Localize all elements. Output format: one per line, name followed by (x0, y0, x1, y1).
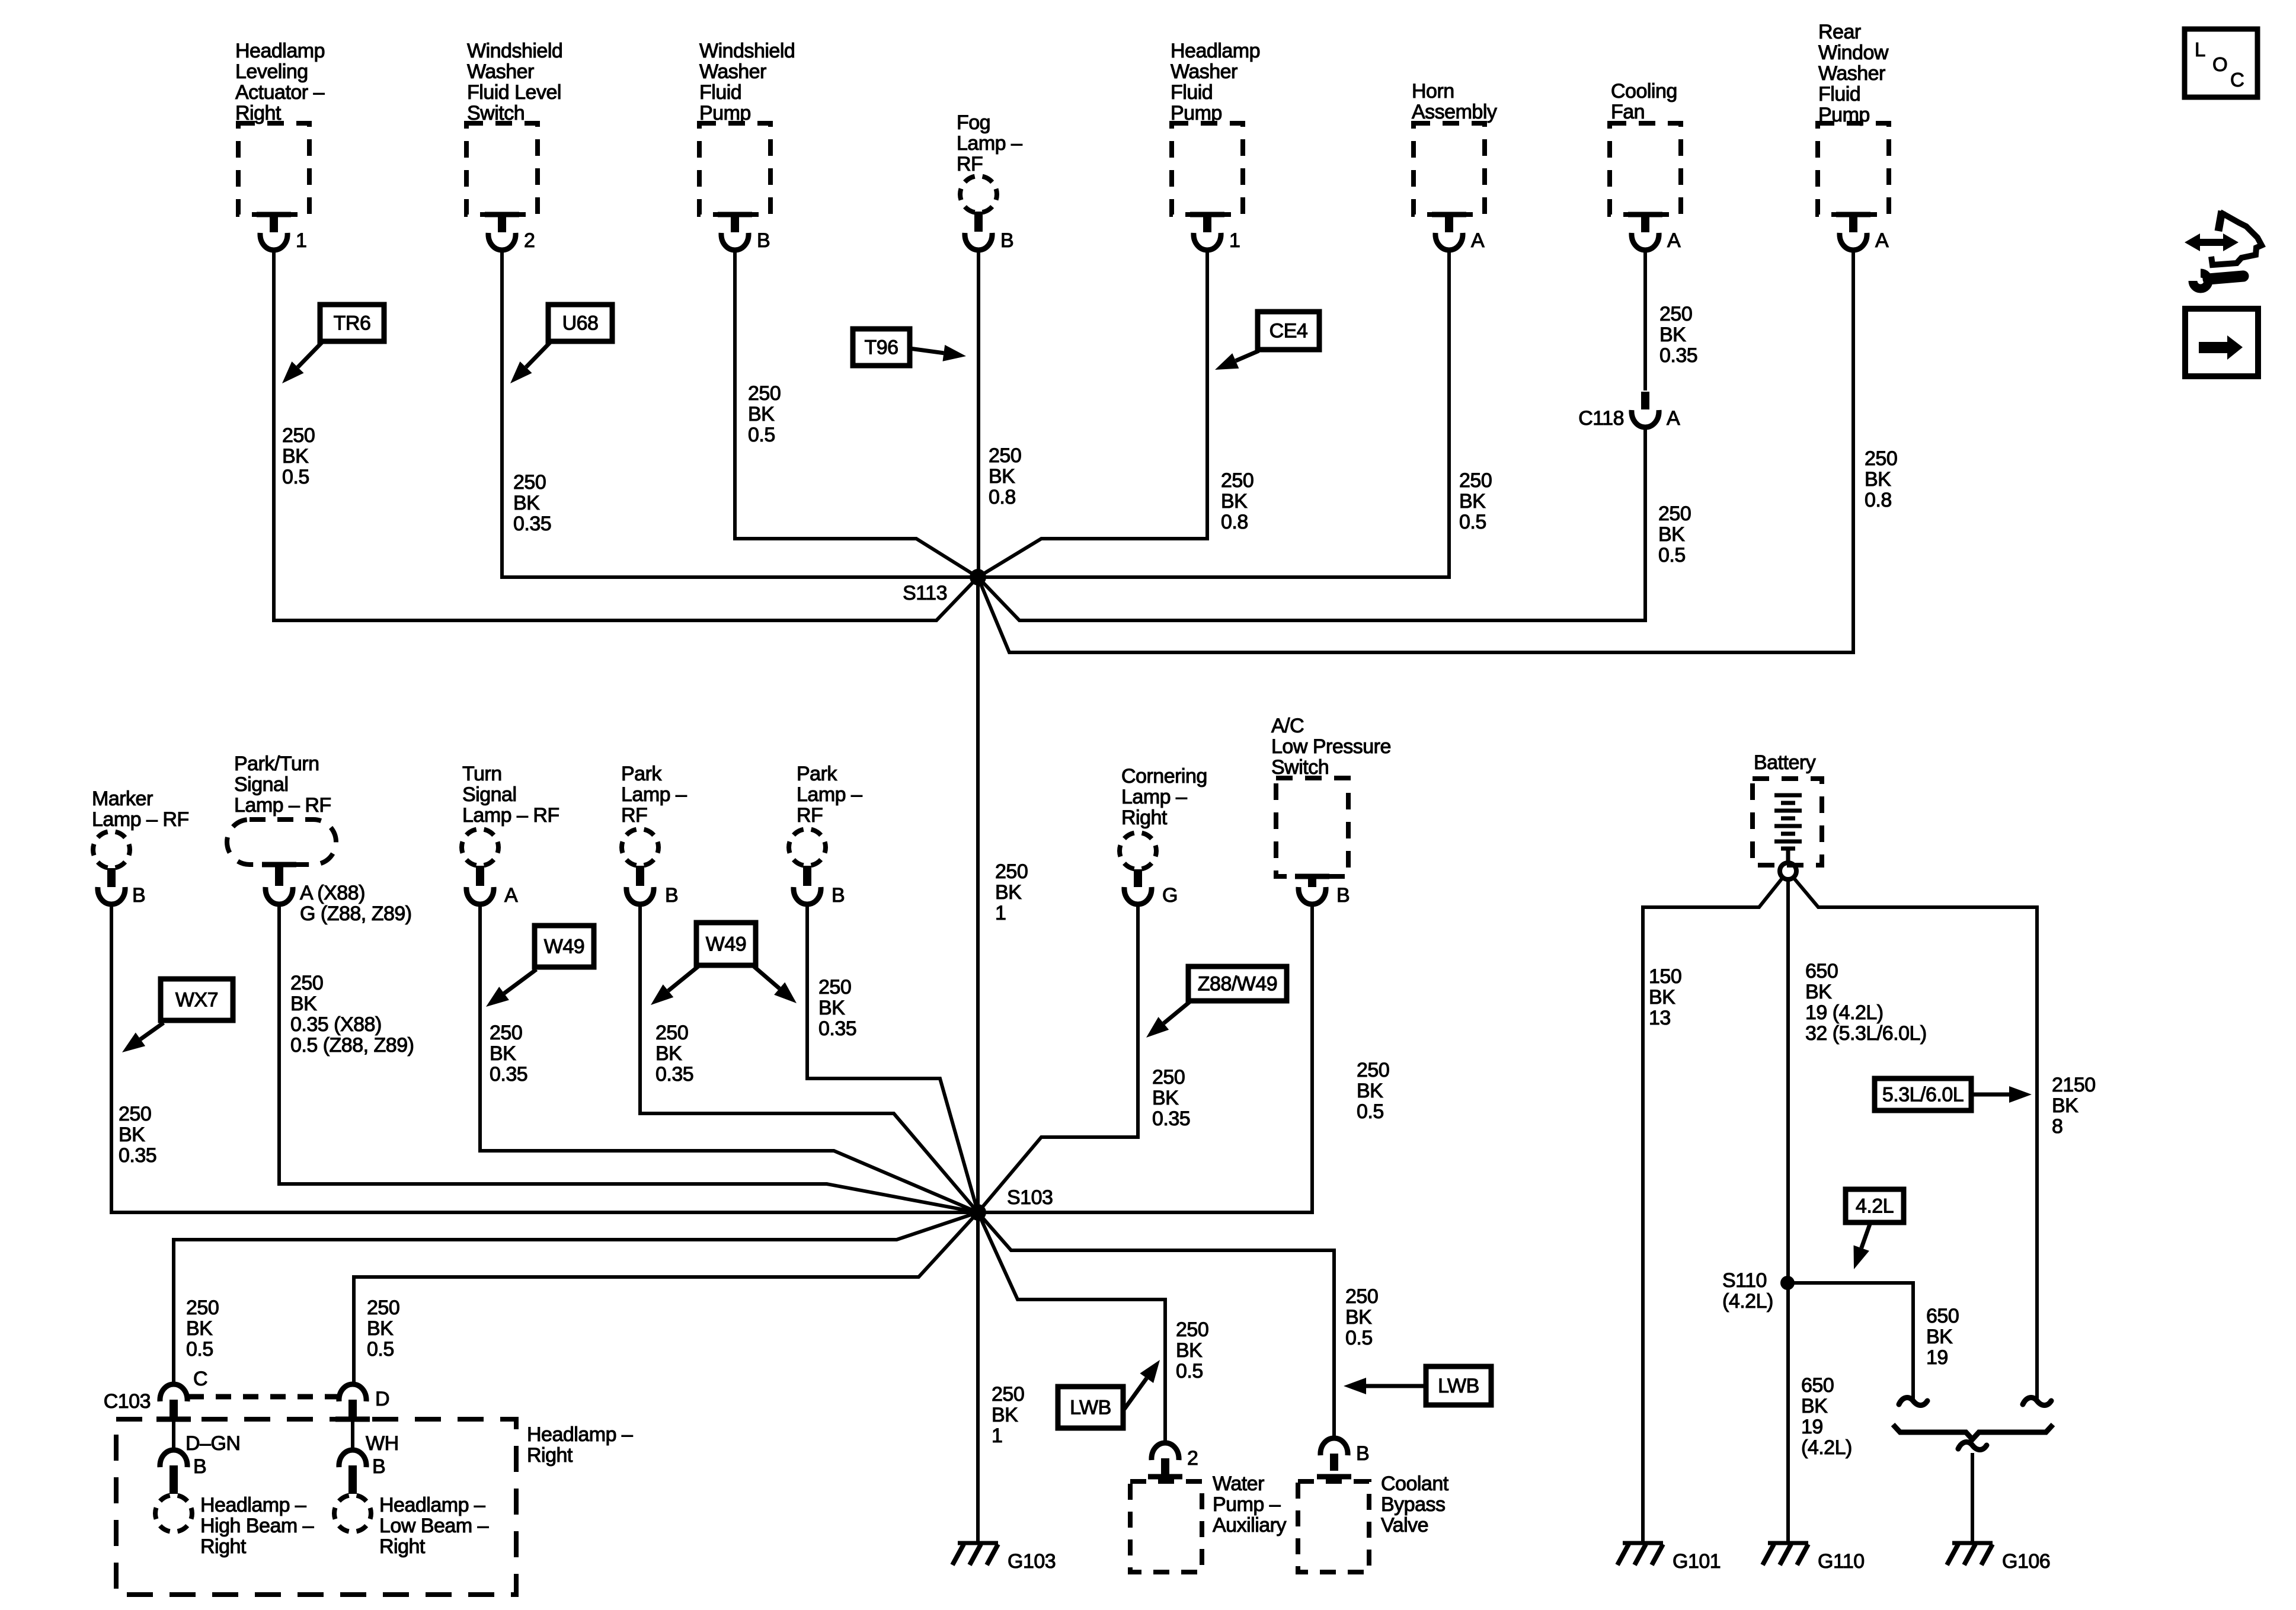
pin 2 of Windshield Washer Fluid Level Switch (524, 229, 535, 252)
svg-text:BK: BK (1865, 468, 1891, 491)
label S103 (1007, 1186, 1053, 1209)
label box LWB (water pump) (1058, 1387, 1123, 1428)
label: 250 BK 0.5 (headlamp low beam wire) (367, 1297, 399, 1361)
svg-text:0.35: 0.35 (1659, 344, 1697, 367)
svg-text:0.35 (X88): 0.35 (X88) (290, 1013, 382, 1036)
wire: park lamp left to S103 (640, 903, 978, 1212)
svg-text:Headlamp –: Headlamp – (527, 1423, 633, 1446)
svg-text:BK: BK (748, 403, 775, 425)
svg-text:0.5: 0.5 (748, 424, 775, 446)
svg-text:1: 1 (995, 902, 1006, 924)
svg-text:O: O (2212, 53, 2227, 75)
legend arrow box (2185, 309, 2258, 376)
connector 2 of water pump (1152, 1443, 1179, 1475)
svg-text:C118: C118 (1578, 407, 1624, 430)
pin 1 of Headlamp Washer Fluid Pump (1229, 229, 1240, 252)
label: 250 BK 0.8 (rear window washer pump wire) (1865, 447, 1897, 511)
svg-text:G110: G110 (1818, 1550, 1865, 1573)
svg-text:250: 250 (290, 972, 323, 994)
component: Cornering Lamp - Right (1120, 765, 1207, 904)
pigtail end (2150 wire) (2023, 1397, 2051, 1405)
label: 250 BK 0.5 (coolant bypass wire) (1345, 1285, 1378, 1349)
label: 250 BK 1 (trunk lower) (992, 1383, 1024, 1447)
svg-text:BK: BK (818, 997, 845, 1019)
wire: battery to G110 (1786, 879, 1790, 1543)
svg-text:Right: Right (200, 1535, 247, 1558)
svg-text:BK: BK (1801, 1395, 1828, 1417)
pin A of Turn Signal Lamp (504, 884, 518, 907)
component: Battery (1753, 751, 1822, 865)
component: Windshield Washer Fluid Pump (699, 40, 795, 250)
arrow from WX7 to marker wire (122, 1023, 164, 1052)
svg-text:250: 250 (1221, 469, 1253, 492)
arrow from W49 right to park lamp left wire (651, 966, 698, 1005)
svg-text:Window: Window (1818, 41, 1889, 64)
label G101 (1673, 1550, 1721, 1573)
svg-text:C: C (2230, 69, 2244, 91)
svg-text:LWB: LWB (1438, 1375, 1479, 1397)
svg-text:Lamp –: Lamp – (797, 783, 862, 806)
svg-text:BK: BK (1152, 1087, 1179, 1109)
svg-text:Park/Turn: Park/Turn (234, 753, 319, 775)
component: Park Lamp - RF (right) (789, 763, 862, 904)
splice S113 (970, 569, 986, 585)
svg-text:Park: Park (797, 763, 837, 785)
arrow from TR6 to wire (282, 343, 322, 383)
label C103 (104, 1390, 151, 1413)
svg-text:BK: BK (1221, 490, 1248, 513)
label: 250 BK 0.8 (headlamp washer pump wire) (1221, 469, 1253, 533)
svg-text:BK: BK (186, 1317, 213, 1340)
svg-text:BK: BK (1345, 1306, 1372, 1329)
label: Headlamp Low Beam Right (379, 1494, 489, 1558)
label G110 (1818, 1550, 1865, 1573)
svg-text:BK: BK (1805, 981, 1832, 1003)
connector C103 row (dashed link) (188, 1394, 339, 1400)
label: Headlamp High Beam Right (200, 1494, 314, 1558)
label: 250 BK 0.35 (cornering lamp wire) (1152, 1066, 1190, 1130)
label: 250 BK 0.8 (fog lamp wire) (989, 444, 1021, 508)
svg-text:Headlamp: Headlamp (235, 40, 325, 62)
label box W49 (right) (696, 923, 756, 965)
pigtail end (S110 branch) (1899, 1397, 1927, 1405)
pin B of Park Lamp (right) (832, 884, 845, 907)
svg-text:C103: C103 (104, 1390, 151, 1413)
svg-text:0.8: 0.8 (989, 486, 1016, 508)
label box 4.2L (1846, 1189, 1904, 1222)
label: 150 BK 13 (1649, 965, 1681, 1029)
svg-text:250: 250 (748, 382, 781, 405)
svg-text:Bypass: Bypass (1381, 1493, 1446, 1516)
wire: park lamp right to S103 (807, 903, 978, 1212)
svg-text:BK: BK (995, 881, 1022, 904)
svg-text:WH: WH (366, 1432, 399, 1455)
arrow from CE4 to wire (1215, 351, 1259, 370)
svg-text:0.5: 0.5 (1658, 544, 1686, 566)
wire: cornering lamp to S103 (978, 903, 1138, 1212)
wire: horn assembly to S113 (978, 249, 1449, 577)
wire: S110 branch to pigtail (1787, 1283, 1913, 1402)
svg-text:250: 250 (655, 1022, 688, 1044)
svg-text:CE4: CE4 (1269, 320, 1308, 343)
svg-text:Lamp –: Lamp – (957, 132, 1022, 155)
component: Park/Turn Signal Lamp - RF (227, 753, 336, 904)
svg-text:0.35: 0.35 (1152, 1108, 1190, 1130)
svg-text:Water: Water (1213, 1473, 1264, 1495)
component box: Coolant Bypass Valve (1298, 1477, 1369, 1572)
svg-text:BK: BK (1658, 523, 1685, 546)
svg-text:BK: BK (1357, 1080, 1383, 1102)
svg-text:BK: BK (655, 1042, 682, 1065)
svg-text:19: 19 (1801, 1416, 1823, 1438)
label C118 (1578, 407, 1624, 430)
svg-text:0.5: 0.5 (1345, 1327, 1373, 1349)
component: A/C Low Pressure Switch (1271, 715, 1391, 904)
svg-text:250: 250 (1152, 1066, 1185, 1089)
svg-text:Right: Right (527, 1444, 573, 1467)
svg-text:A: A (1875, 229, 1889, 252)
svg-text:5.3L/6.0L: 5.3L/6.0L (1882, 1084, 1964, 1106)
label box 5.3L/6.0L (1875, 1078, 1971, 1110)
svg-text:L: L (2195, 39, 2205, 60)
svg-text:B: B (1356, 1442, 1369, 1465)
svg-text:Headlamp –: Headlamp – (379, 1494, 485, 1516)
legend vehicle outline icon (2211, 211, 2262, 265)
svg-text:(4.2L): (4.2L) (1722, 1290, 1773, 1313)
svg-text:Washer: Washer (1171, 60, 1237, 83)
arrow from LWB to water pump wire (1124, 1360, 1160, 1409)
pin B of A/C Low Pressure Switch (1336, 884, 1350, 907)
svg-text:250: 250 (513, 471, 546, 494)
svg-text:1: 1 (296, 229, 306, 252)
svg-text:0.5: 0.5 (282, 466, 309, 488)
label box T96 (853, 329, 910, 366)
connector C103 terminal D (339, 1384, 366, 1420)
svg-text:250: 250 (1176, 1318, 1208, 1341)
svg-text:B: B (832, 884, 845, 907)
svg-text:BK: BK (290, 993, 317, 1015)
svg-text:650: 650 (1801, 1374, 1834, 1397)
component: Headlamp Leveling Actuator - Right (235, 40, 325, 250)
svg-text:Pump –: Pump – (1213, 1493, 1281, 1516)
svg-text:A: A (504, 884, 518, 907)
svg-text:32 (5.3L/6.0L): 32 (5.3L/6.0L) (1805, 1022, 1927, 1045)
svg-text:Signal: Signal (462, 783, 517, 806)
svg-text:W49: W49 (706, 933, 746, 956)
pin A of Cooling Fan (1667, 229, 1681, 252)
svg-text:BK: BK (513, 492, 540, 514)
arrow from LWB to coolant bypass wire (1344, 1378, 1426, 1394)
label: Coolant Bypass Valve (1381, 1473, 1449, 1537)
wire: marker lamp to S103 (111, 903, 978, 1212)
label S110 (4.2L) (1722, 1269, 1773, 1313)
label: 250 BK 0.5 (A/C switch wire) (1357, 1059, 1389, 1123)
svg-text:B: B (757, 229, 770, 252)
svg-text:BK: BK (1659, 324, 1686, 346)
svg-text:Low Beam –: Low Beam – (379, 1515, 489, 1537)
svg-text:A (X88): A (X88) (300, 882, 365, 904)
svg-text:2: 2 (1187, 1447, 1198, 1470)
pin G of Cornering Lamp (1162, 884, 1178, 907)
wire: rear window washer pump to S113 (978, 249, 1853, 652)
label box WX7 (161, 979, 233, 1020)
svg-text:B: B (132, 884, 145, 907)
svg-text:B: B (665, 884, 678, 907)
wire: turn signal lamp to S103 (480, 903, 978, 1212)
pin B of low beam (372, 1455, 385, 1478)
svg-text:Leveling: Leveling (235, 60, 308, 83)
svg-text:B: B (1336, 884, 1350, 907)
svg-text:S103: S103 (1007, 1186, 1053, 1209)
pin A of Rear Window Washer Fluid Pump (1875, 229, 1889, 252)
label: 250 BK 0.35 (cooling fan wire) (1659, 303, 1697, 367)
component box: Water Pump - Auxiliary (1130, 1477, 1202, 1572)
svg-text:D–GN: D–GN (186, 1432, 240, 1455)
wire: S103 to headlamp connector D (354, 1212, 978, 1384)
battery terminal node (1780, 863, 1796, 879)
svg-text:0.8: 0.8 (1865, 489, 1892, 511)
svg-text:Lamp – RF: Lamp – RF (462, 804, 559, 827)
svg-text:A: A (1667, 407, 1680, 430)
svg-text:(4.2L): (4.2L) (1801, 1436, 1852, 1459)
svg-text:RF: RF (957, 153, 983, 175)
svg-text:Headlamp: Headlamp (1171, 40, 1260, 62)
svg-text:0.5: 0.5 (1176, 1360, 1203, 1382)
connector C103 terminal C (160, 1384, 187, 1420)
label: 250 BK 0.5 (C118 to S113 wire) (1658, 502, 1691, 566)
svg-text:G (Z88, Z89): G (Z88, Z89) (300, 902, 412, 925)
wire: battery to G101 (1643, 878, 1783, 1543)
svg-text:A: A (1471, 229, 1485, 252)
pins A/G of Park/Turn Signal Lamp (300, 882, 412, 925)
svg-text:Fog: Fog (957, 111, 990, 134)
svg-text:G101: G101 (1673, 1550, 1721, 1573)
label: 650 BK 19/32 (1805, 960, 1927, 1045)
label box CE4 (1258, 312, 1319, 350)
component: Marker Lamp - RF (92, 788, 189, 904)
component: Park Lamp - RF (left) (621, 763, 687, 904)
svg-text:1: 1 (992, 1425, 1002, 1447)
svg-text:Right: Right (1121, 806, 1168, 829)
ground G103 (952, 1543, 998, 1565)
svg-text:150: 150 (1649, 965, 1681, 988)
svg-text:0.8: 0.8 (1221, 511, 1248, 533)
component: Cooling Fan (1610, 80, 1681, 250)
pin B of Marker Lamp (132, 884, 145, 907)
component: Turn Signal Lamp - RF (462, 763, 559, 904)
svg-text:High Beam –: High Beam – (200, 1515, 314, 1537)
wire: headlamp leveling actuator to S113 (274, 249, 978, 620)
svg-text:250: 250 (1357, 1059, 1389, 1081)
svg-text:RF: RF (797, 804, 823, 827)
brace joining pigtails (1893, 1425, 2053, 1439)
arrow from Z88/W49 to cornering wire (1146, 1002, 1189, 1038)
wire: windshield washer pump to S113 (735, 249, 978, 577)
pin C of C103 (193, 1368, 207, 1390)
svg-text:250: 250 (989, 444, 1021, 467)
splice S103 (970, 1204, 986, 1221)
svg-text:S113: S113 (903, 582, 947, 604)
component: Headlamp Washer Fluid Pump (1171, 40, 1260, 250)
pin B of Fog Lamp - RF (1000, 229, 1013, 252)
wire: park/turn signal lamp to S103 (279, 903, 978, 1212)
svg-text:Fluid: Fluid (699, 81, 741, 104)
svg-text:A/C: A/C (1271, 715, 1304, 737)
svg-text:BK: BK (1176, 1339, 1203, 1362)
wire: trunk S113 to S103 (976, 577, 980, 1212)
svg-text:0.35: 0.35 (513, 513, 551, 535)
component: Rear Window Washer Fluid Pump (1818, 21, 1889, 250)
connector B of coolant bypass valve (1320, 1438, 1348, 1471)
label D-GN wire color (186, 1432, 240, 1455)
svg-text:0.35: 0.35 (490, 1063, 527, 1086)
svg-text:Washer: Washer (699, 60, 766, 83)
wire: brace to G106 (1971, 1453, 1974, 1543)
connector B of low beam (339, 1450, 366, 1494)
svg-text:BK: BK (1926, 1326, 1953, 1348)
legend double-headed arrow (2185, 233, 2239, 251)
svg-text:B: B (193, 1455, 206, 1478)
svg-text:Actuator –: Actuator – (235, 81, 325, 104)
svg-text:250: 250 (1345, 1285, 1378, 1308)
svg-text:250: 250 (186, 1297, 219, 1319)
svg-text:BK: BK (1459, 490, 1486, 513)
svg-text:A: A (1667, 229, 1681, 252)
label: 250 BK 0.35 (park lamp left wire) (655, 1022, 693, 1086)
label box TR6 (320, 305, 384, 341)
svg-text:Lamp –: Lamp – (621, 783, 687, 806)
svg-text:Marker: Marker (92, 788, 153, 810)
wire: washer fluid level switch to S113 (502, 249, 978, 577)
pin A of Horn Assembly (1471, 229, 1485, 252)
svg-text:BK: BK (1649, 986, 1675, 1009)
label: 2150 BK 8 (2052, 1074, 2096, 1138)
svg-text:Fluid Level: Fluid Level (467, 81, 561, 104)
label: 250 BK 0.5 (water pump wire) (1176, 1318, 1208, 1382)
svg-text:4.2L: 4.2L (1856, 1195, 1894, 1218)
svg-text:0.5 (Z88, Z89): 0.5 (Z88, Z89) (290, 1034, 414, 1057)
svg-text:BK: BK (282, 445, 309, 468)
svg-text:BK: BK (992, 1404, 1018, 1426)
svg-text:Headlamp –: Headlamp – (200, 1494, 306, 1516)
svg-text:Coolant: Coolant (1381, 1473, 1449, 1495)
svg-text:Washer: Washer (1818, 62, 1885, 85)
svg-text:G103: G103 (1008, 1550, 1056, 1573)
svg-text:250: 250 (282, 424, 315, 447)
label: 650 BK 19 (S110 branch) (1926, 1305, 1959, 1369)
svg-text:Lamp – RF: Lamp – RF (92, 808, 189, 831)
svg-text:Fan: Fan (1611, 101, 1645, 123)
label: 650 BK 19 (4.2L) battery-G110 lower (1801, 1374, 1852, 1459)
ground G101 (1617, 1543, 1663, 1565)
svg-text:Lamp – RF: Lamp – RF (234, 794, 331, 817)
pin B of coolant bypass valve (1356, 1442, 1369, 1465)
svg-text:2150: 2150 (2052, 1074, 2096, 1096)
label: Water Pump - Auxiliary (1213, 1473, 1286, 1537)
wire: battery to engine block pigtail (1793, 878, 2037, 1402)
svg-text:13: 13 (1649, 1007, 1671, 1029)
svg-text:Fluid: Fluid (1171, 81, 1213, 104)
svg-text:Windshield: Windshield (467, 40, 562, 62)
svg-text:250: 250 (1865, 447, 1897, 470)
pin 1 of Headlamp Leveling Actuator - Right (296, 229, 306, 252)
label: Headlamp - Right (527, 1423, 633, 1467)
label box W49 (left) (535, 926, 594, 967)
label: 250 BK 0.35 (turn signal wire) (490, 1022, 527, 1086)
wire: C103 C to high-beam connector (172, 1420, 175, 1451)
svg-text:250: 250 (1658, 502, 1691, 525)
label box U68 (548, 305, 612, 341)
svg-text:0.5: 0.5 (1459, 511, 1486, 533)
svg-text:Valve: Valve (1381, 1514, 1428, 1537)
label G106 (2002, 1550, 2050, 1573)
component: Headlamp - Low Beam - Right (bulb) (334, 1495, 371, 1532)
svg-text:WX7: WX7 (175, 989, 218, 1012)
svg-text:0.35: 0.35 (655, 1063, 693, 1086)
wire: S103 to water pump (978, 1212, 1165, 1443)
svg-text:250: 250 (1659, 303, 1692, 325)
svg-text:250: 250 (818, 976, 851, 998)
pigtail to G106 (1958, 1442, 1987, 1449)
svg-text:BK: BK (2052, 1094, 2078, 1117)
component: Headlamp - High Beam - Right (bulb) (155, 1495, 192, 1532)
svg-text:Battery: Battery (1754, 751, 1816, 774)
svg-text:19 (4.2L): 19 (4.2L) (1805, 1001, 1884, 1024)
svg-text:Lamp –: Lamp – (1121, 786, 1187, 808)
svg-text:Assembly: Assembly (1412, 101, 1497, 123)
connector C118 (1632, 392, 1659, 427)
svg-text:Rear: Rear (1818, 21, 1861, 43)
label: 250 BK 0.35 (park lamp right wire) (818, 976, 856, 1040)
legend LOC box (2185, 29, 2257, 97)
label: 250 BK 1 (trunk upper) (995, 860, 1028, 924)
wire: C103 D to low-beam connector (351, 1420, 354, 1451)
label WH wire color (366, 1432, 399, 1455)
svg-text:G: G (1162, 884, 1178, 907)
svg-text:Park: Park (621, 763, 662, 785)
arrow from T96 to fog lamp wire (910, 345, 966, 361)
svg-text:250: 250 (1459, 469, 1492, 492)
wire: fog lamp to S113 (977, 249, 980, 577)
label: 250 BK 0.35/0.5 (park/turn signal wire) (290, 972, 414, 1057)
ground G110 (1763, 1543, 1808, 1565)
svg-text:Turn: Turn (462, 763, 502, 785)
component box: Headlamp - Right (116, 1419, 516, 1595)
svg-text:BK: BK (989, 465, 1015, 488)
svg-text:Switch: Switch (1271, 756, 1329, 779)
svg-text:Cooling: Cooling (1611, 80, 1677, 103)
svg-text:Windshield: Windshield (699, 40, 795, 62)
svg-text:C: C (193, 1368, 207, 1390)
arrow from U68 to wire (510, 343, 550, 383)
svg-text:LWB: LWB (1070, 1397, 1111, 1419)
pin A of C118 (1667, 407, 1680, 430)
pin B of Windshield Washer Fluid Pump (757, 229, 770, 252)
svg-text:2: 2 (524, 229, 535, 252)
svg-text:Cornering: Cornering (1121, 765, 1207, 788)
svg-text:TR6: TR6 (334, 312, 371, 335)
svg-text:0.35: 0.35 (818, 1017, 856, 1040)
pin B of Park Lamp (left) (665, 884, 678, 907)
svg-text:W49: W49 (544, 936, 584, 958)
wire: A/C low pressure switch to S103 (978, 903, 1312, 1212)
label box Z88/W49 (1188, 966, 1287, 1001)
svg-text:0.35: 0.35 (119, 1144, 156, 1167)
svg-text:U68: U68 (562, 312, 599, 335)
label: 250 BK 0.5 (windshield washer pump wire) (748, 382, 781, 446)
svg-text:D: D (375, 1388, 389, 1410)
wire: cooling fan to C118 (1643, 249, 1647, 391)
